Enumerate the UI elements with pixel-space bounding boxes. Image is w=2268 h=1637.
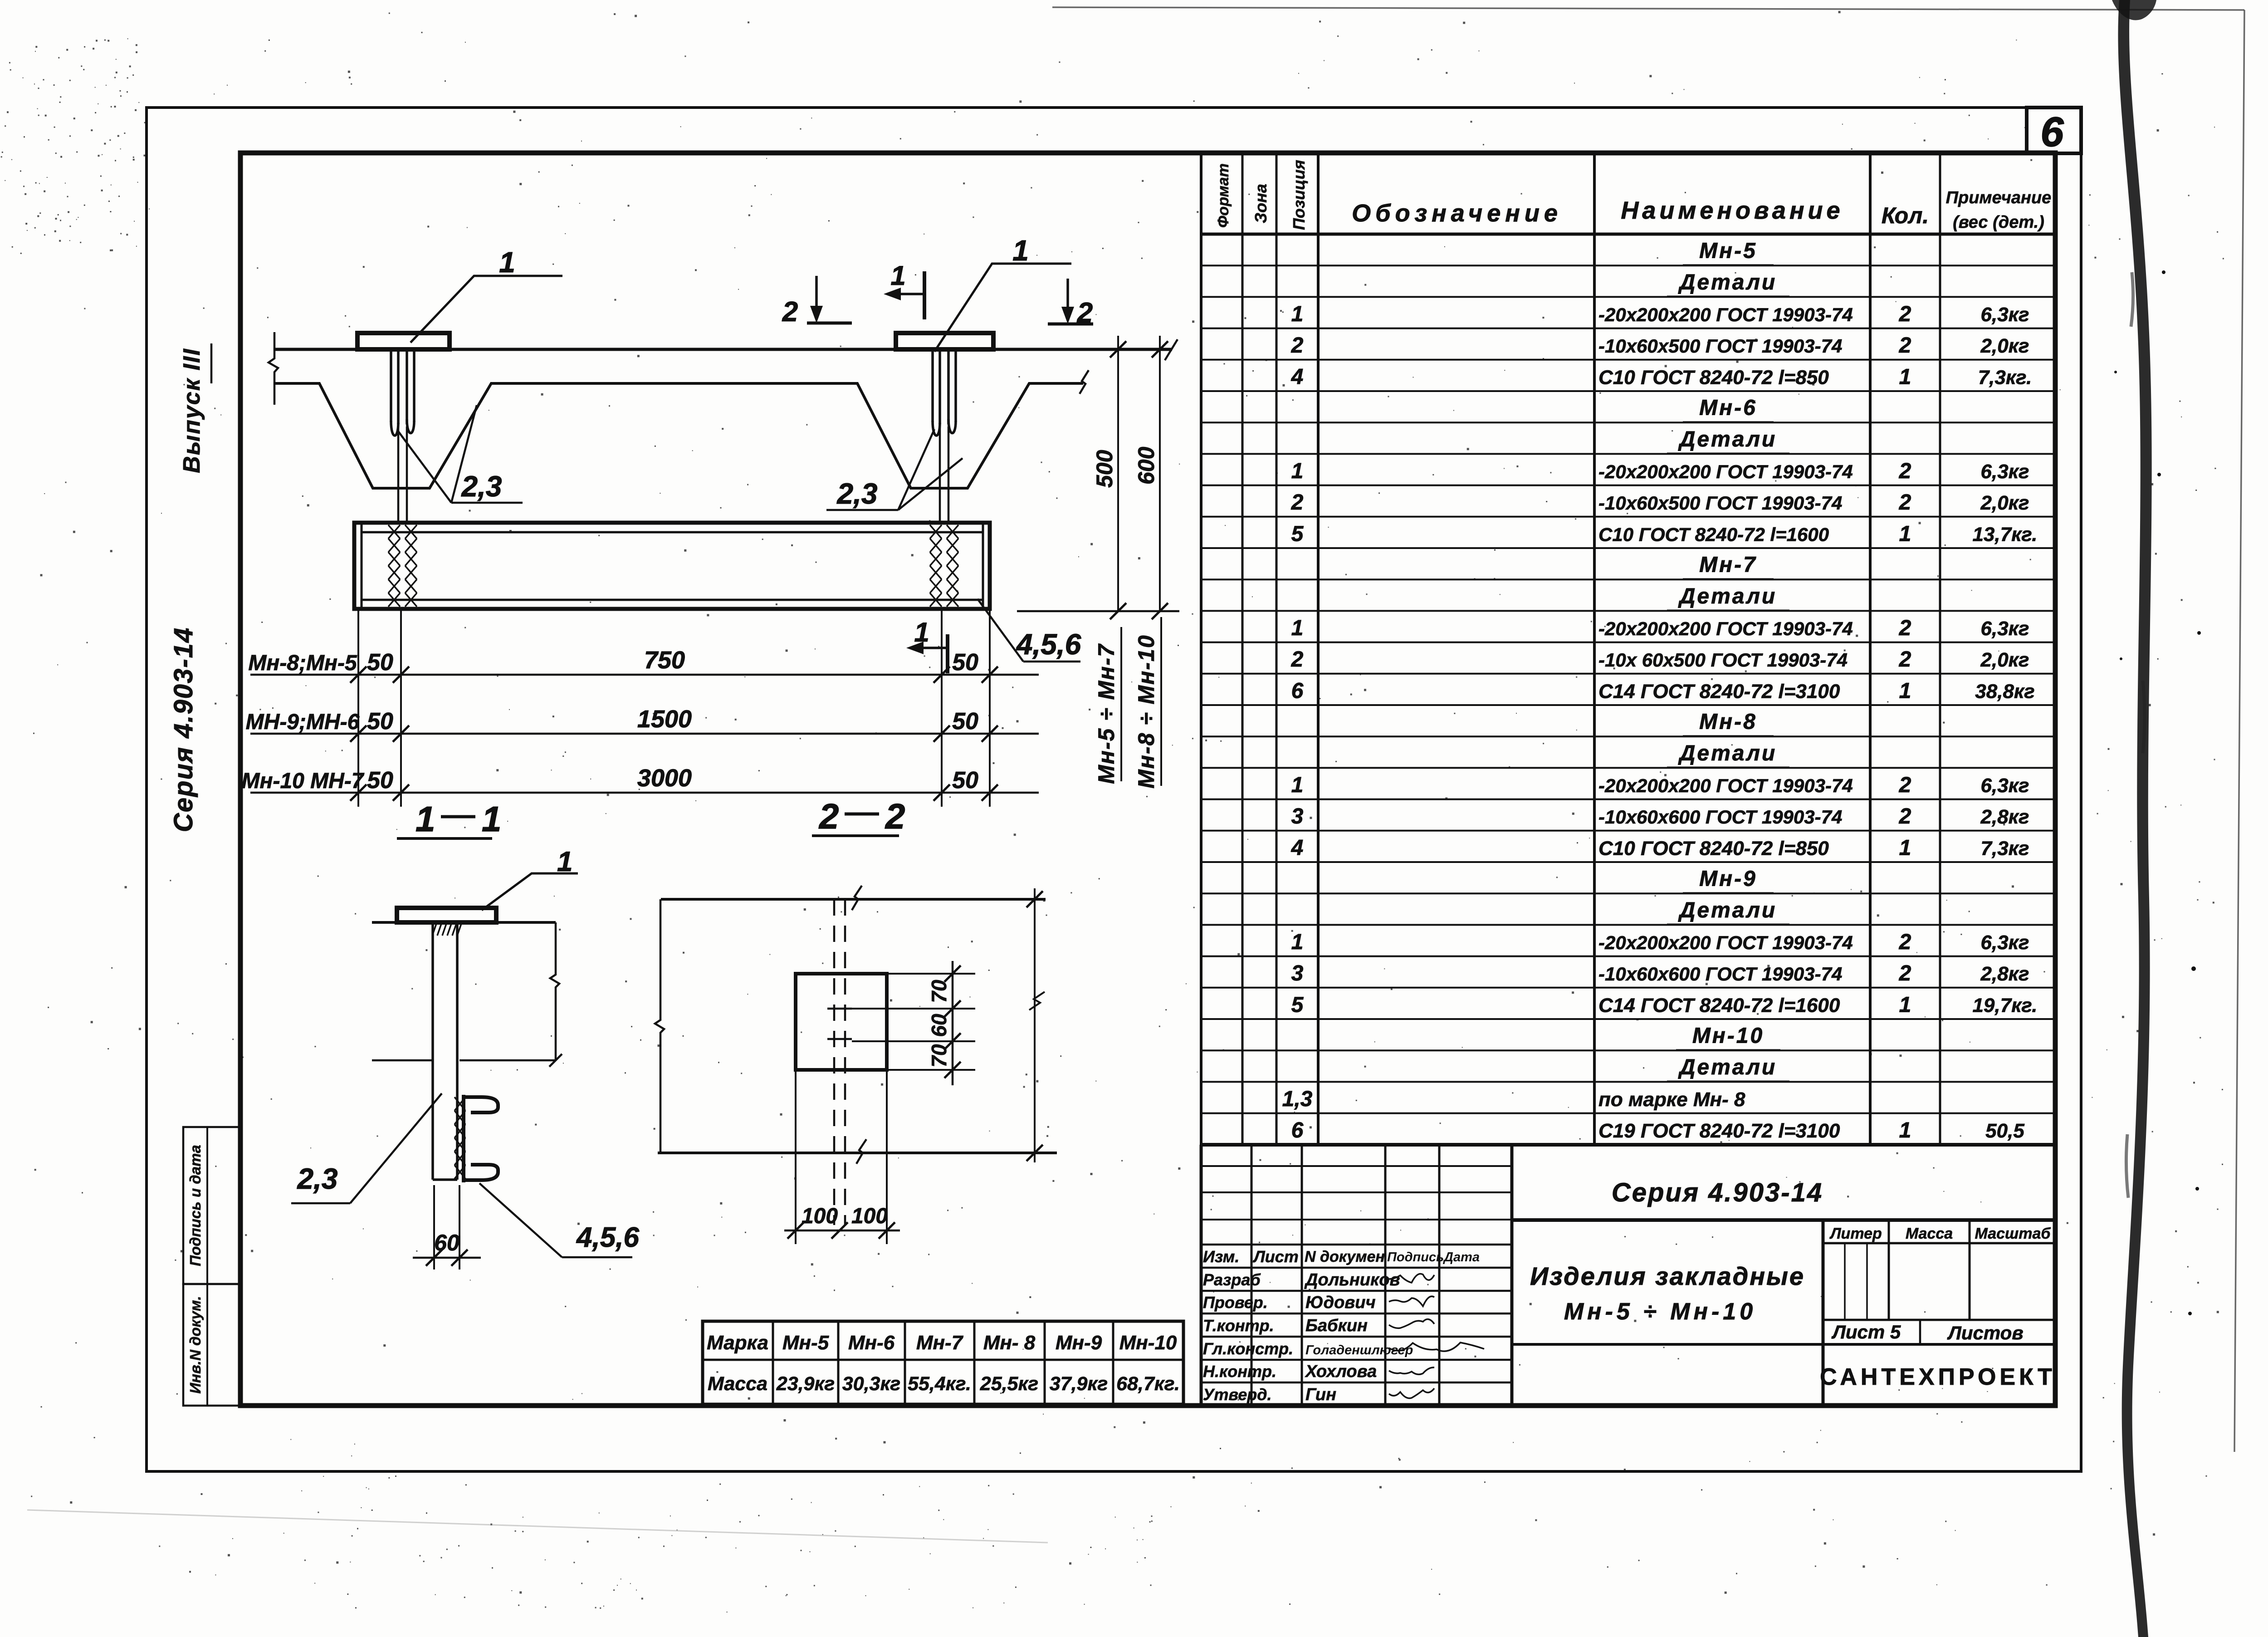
svg-text:2,0кг: 2,0кг: [1980, 492, 2029, 514]
svg-text:2: 2: [1899, 333, 1911, 358]
svg-text:1: 1: [415, 799, 435, 839]
svg-text:Мн-5: Мн-5: [782, 1332, 829, 1354]
plate detail 1 (left): [357, 333, 450, 349]
svg-text:2: 2: [1899, 930, 1911, 954]
лист divider: [1919, 1320, 1921, 1344]
svg-text:2: 2: [782, 296, 798, 328]
section mark 1 (lower) arrow: [916, 647, 948, 649]
dim ticks row A: [350, 667, 367, 683]
svg-text:САНТЕХПРОЕКТ: САНТЕХПРОЕКТ: [1820, 1364, 2056, 1390]
ЛМС header bottom: [1823, 1242, 2055, 1245]
svg-text:600: 600: [1134, 446, 1159, 485]
svg-text:Дата: Дата: [1442, 1250, 1480, 1265]
overall dim line (2-2): [1034, 888, 1036, 1162]
view title 2-2 underline: [812, 834, 899, 837]
anchor rod (view 1-1): [433, 922, 457, 1180]
ЛМС verticals: [1888, 1220, 1890, 1320]
paper bottom edge faint line: [27, 1510, 1048, 1543]
svg-text:100: 100: [851, 1204, 888, 1228]
svg-text:Гин: Гин: [1305, 1385, 1336, 1404]
svg-text:2: 2: [885, 796, 905, 836]
parts table column lines: [1200, 153, 1202, 1145]
svg-text:Литер: Литер: [1829, 1225, 1882, 1242]
svg-text:19,7кг.: 19,7кг.: [1972, 994, 2037, 1016]
svg-text:23,9кг: 23,9кг: [776, 1373, 835, 1395]
svg-text:2: 2: [1899, 459, 1911, 483]
channel bottom flange: [464, 1165, 498, 1180]
marka table column lines: [772, 1321, 774, 1404]
svg-text:1: 1: [1291, 773, 1304, 797]
dim 100 line: [784, 1230, 900, 1232]
break mark top (2-2): [852, 886, 862, 910]
svg-text:Изделия закладные: Изделия закладные: [1530, 1262, 1805, 1290]
dim line row C: [250, 792, 1039, 794]
signature Разраб: [1389, 1274, 1434, 1283]
parts table row lines: [1201, 265, 2055, 266]
revision grid row lines: [1201, 1244, 1512, 1246]
weld xmarks (view 1-1): [455, 1097, 465, 1179]
svg-text:-10х60х500 ГОСТ 19903-74: -10х60х500 ГОСТ 19903-74: [1598, 492, 1842, 514]
svg-text:Кол.: Кол.: [1882, 203, 1929, 228]
slab right edge with break: [550, 922, 559, 1060]
svg-text:2: 2: [1899, 490, 1911, 515]
svg-text:Мн-7: Мн-7: [1699, 553, 1757, 577]
svg-text:750: 750: [644, 647, 685, 674]
revision grid verticals: [1200, 1145, 1203, 1406]
svg-text:2: 2: [818, 796, 839, 836]
torn streak top blob: [2112, 0, 2156, 20]
svg-text:Инв.N докум.: Инв.N докум.: [187, 1296, 204, 1393]
svg-text:Хохлова: Хохлова: [1305, 1362, 1377, 1381]
svg-text:3: 3: [1291, 961, 1304, 985]
section mark 2 (right) arrow: [1066, 279, 1069, 315]
svg-text:2: 2: [1899, 302, 1911, 326]
vertical dim line 600: [1159, 336, 1161, 611]
svg-text:7,3кг.: 7,3кг.: [1978, 366, 2032, 388]
dim extension lines: [358, 610, 990, 807]
svg-text:1,3: 1,3: [1282, 1087, 1313, 1111]
svg-text:Мн- 8: Мн- 8: [983, 1332, 1036, 1354]
svg-text:Зона: Зона: [1251, 184, 1270, 223]
svg-text:1: 1: [499, 246, 515, 279]
svg-text:4: 4: [1291, 365, 1304, 389]
leader 2,3 (view 1-1): [350, 1093, 442, 1203]
margin box divider: [206, 1127, 208, 1284]
svg-text:70: 70: [927, 980, 951, 1003]
ink blobs right margin: [2162, 270, 2165, 274]
signature Т.контр.: [1389, 1319, 1434, 1328]
svg-text:-10х60х500 ГОСТ 19903-74: -10х60х500 ГОСТ 19903-74: [1598, 335, 1842, 357]
outer sheet border: [147, 108, 2081, 1471]
svg-text:Детали: Детали: [1678, 270, 1777, 294]
svg-text:2: 2: [1899, 616, 1911, 640]
slab top line: [274, 348, 1172, 351]
svg-text:Серия 4.903-14: Серия 4.903-14: [169, 627, 198, 832]
svg-text:Мн-9: Мн-9: [1699, 867, 1757, 891]
svg-text:-20х200х200 ГОСТ 19903-74: -20х200х200 ГОСТ 19903-74: [1598, 932, 1853, 953]
left anchor leg inner lines: [398, 349, 407, 424]
underline mark range 2: [1160, 617, 1162, 786]
svg-text:Мн-10: Мн-10: [1119, 1332, 1177, 1354]
svg-text:Детали: Детали: [1678, 741, 1777, 765]
svg-text:2: 2: [1899, 647, 1911, 671]
dim line row A: [250, 674, 1039, 676]
section mark 2 (left) bar: [807, 322, 852, 325]
svg-text:N докумен: N докумен: [1305, 1248, 1385, 1265]
svg-text:Наименование: Наименование: [1621, 197, 1843, 224]
svg-text:Гл.констр.: Гл.констр.: [1203, 1339, 1293, 1358]
signature Утверд.: [1389, 1388, 1434, 1398]
title block top line: [1512, 1218, 2055, 1222]
svg-text:1: 1: [1291, 302, 1304, 326]
svg-text:Марка: Марка: [707, 1332, 768, 1354]
weld tick marks on axis: [827, 1009, 852, 1039]
weld hatch left pair: [388, 525, 400, 607]
leader 4,5,6 (view 1-1): [479, 1183, 562, 1257]
leader to plate (view 1-1): [482, 873, 578, 910]
svg-text:-20х200х200 ГОСТ 19903-74: -20х200х200 ГОСТ 19903-74: [1598, 618, 1853, 639]
svg-text:1: 1: [1012, 234, 1029, 267]
svg-text:Примечание: Примечание: [1946, 188, 2052, 207]
svg-text:-20х200х200 ГОСТ 19903-74: -20х200х200 ГОСТ 19903-74: [1598, 775, 1853, 796]
plate detail 1 (right): [896, 333, 993, 349]
svg-text:Лист 5: Лист 5: [1831, 1321, 1901, 1343]
title block mid line: [1512, 1343, 2055, 1346]
right anchor rod extension to beam: [940, 426, 948, 523]
dim ticks row B: [350, 725, 367, 742]
underline 2,3 left: [451, 502, 523, 504]
svg-text:6,3кг: 6,3кг: [1981, 774, 2029, 797]
underline mark range 1: [1120, 627, 1122, 781]
overall dim break: [1029, 992, 1045, 1010]
slab bottom end tick: [549, 1054, 562, 1067]
svg-text:Мн-5 ÷ Мн-10: Мн-5 ÷ Мн-10: [1564, 1299, 1756, 1325]
dim 60 line: [413, 1257, 481, 1259]
ЛМС row bottom: [1823, 1319, 2055, 1321]
signature Провер.: [1389, 1296, 1434, 1306]
svg-text:С10 ГОСТ 8240-72 l=850: С10 ГОСТ 8240-72 l=850: [1598, 837, 1829, 859]
underline 4,5,6 (view 1-1): [562, 1256, 632, 1259]
svg-text:-20х200х200 ГОСТ 19903-74: -20х200х200 ГОСТ 19903-74: [1598, 304, 1853, 325]
weld hatch right pair: [930, 525, 942, 607]
right anchor leg outer lines: [933, 349, 956, 422]
svg-text:1: 1: [1291, 459, 1304, 483]
parts table header bottom: [1201, 233, 2055, 236]
marka table outline: [703, 1321, 1183, 1404]
svg-text:Мн-9: Мн-9: [1056, 1332, 1102, 1354]
svg-text:2,0кг: 2,0кг: [1980, 335, 2029, 357]
svg-text:55,4кг.: 55,4кг.: [908, 1373, 971, 1395]
svg-text:2: 2: [1077, 297, 1093, 328]
slab top line (2-2): [661, 898, 1046, 901]
svg-text:Серия 4.903-14: Серия 4.903-14: [1612, 1178, 1823, 1207]
overall dim ticks: [1026, 891, 1043, 907]
section mark 2 (right) bar: [1048, 323, 1093, 326]
svg-text:6: 6: [1291, 1118, 1304, 1142]
svg-text:50: 50: [367, 767, 393, 794]
section mark 1 (top) arrow: [894, 293, 924, 295]
svg-text:Подпись: Подпись: [1387, 1250, 1444, 1265]
svg-text:6,3кг: 6,3кг: [1981, 931, 2029, 954]
channel beam outline: [354, 523, 990, 609]
ЛМС sub verticals: [1844, 1243, 1846, 1320]
rod axis dashed line a: [833, 899, 836, 1225]
channel beam inner bottom line: [362, 599, 983, 601]
signature Гл.констр.: [1389, 1343, 1484, 1351]
slab bottom end break: [1080, 370, 1089, 394]
svg-text:60: 60: [927, 1014, 951, 1037]
svg-text:50: 50: [367, 708, 393, 735]
signature Н.контр.: [1389, 1367, 1434, 1374]
slab left edge (2-2): [655, 899, 664, 1153]
svg-text:6,3кг: 6,3кг: [1981, 304, 2029, 326]
svg-text:1: 1: [890, 260, 905, 291]
sheet number box (top right): [2027, 108, 2081, 153]
svg-text:Изм.: Изм.: [1203, 1247, 1239, 1266]
svg-text:1: 1: [1899, 522, 1911, 546]
svg-text:5: 5: [1291, 522, 1304, 546]
svg-text:2: 2: [1899, 804, 1911, 828]
revision grid blank rows: [1201, 1165, 1512, 1167]
svg-text:Мн-10: Мн-10: [1692, 1024, 1764, 1048]
svg-text:50,5: 50,5: [1985, 1120, 2024, 1142]
svg-text:Листов: Листов: [1947, 1322, 2024, 1343]
svg-text:1: 1: [482, 799, 501, 839]
svg-text:70: 70: [927, 1044, 951, 1068]
svg-text:Мн-6: Мн-6: [1699, 396, 1757, 420]
svg-text:Разраб: Разраб: [1203, 1270, 1261, 1289]
slab bottom line (view 1-1): [372, 1059, 556, 1062]
dim 100 extensions: [796, 1072, 887, 1244]
svg-text:С10 ГОСТ 8240-72 l=850: С10 ГОСТ 8240-72 l=850: [1598, 366, 1829, 388]
channel beam inner end lines: [362, 523, 983, 609]
channel web (view 1-1): [462, 1095, 465, 1182]
svg-text:-10х60х600 ГОСТ 19903-74: -10х60х600 ГОСТ 19903-74: [1598, 963, 1842, 985]
svg-text:Обозначение: Обозначение: [1352, 200, 1562, 227]
leader to plate 1 (left): [411, 276, 562, 343]
underline 2,3 (view 1-1): [291, 1202, 350, 1205]
svg-text:Детали: Детали: [1678, 584, 1777, 608]
svg-text:Детали: Детали: [1678, 898, 1777, 922]
dim 70-60-70 extensions: [852, 974, 975, 1070]
svg-text:1: 1: [557, 846, 572, 877]
torn streak fringes: [2126, 272, 2145, 1198]
dim line row B: [250, 733, 1039, 735]
parts table bottom line: [1201, 1143, 2055, 1147]
svg-text:С14 ГОСТ 8240-72 l=1600: С14 ГОСТ 8240-72 l=1600: [1598, 994, 1840, 1016]
marka table row divider: [703, 1359, 1183, 1361]
svg-text:2,8кг: 2,8кг: [1980, 963, 2029, 985]
svg-text:Лист: Лист: [1252, 1247, 1299, 1266]
margin box divider 2: [206, 1284, 208, 1406]
margin box "Инв. N докум.": [183, 1284, 240, 1406]
vertical dim line 500: [1117, 336, 1119, 611]
vertical dim base line: [1017, 610, 1179, 613]
svg-text:Мн-6: Мн-6: [848, 1332, 895, 1354]
svg-text:(вес (дет.): (вес (дет.): [1953, 213, 2044, 232]
svg-text:Мн-7: Мн-7: [916, 1332, 964, 1354]
channel top flange: [464, 1097, 498, 1113]
svg-text:2: 2: [1291, 490, 1304, 515]
slab top line (view 1-1): [372, 921, 556, 924]
svg-text:по марке Мн- 8: по марке Мн- 8: [1598, 1088, 1745, 1111]
svg-text:С14 ГОСТ 8240-72 l=3100: С14 ГОСТ 8240-72 l=3100: [1598, 680, 1840, 702]
svg-text:Детали: Детали: [1678, 1055, 1777, 1079]
svg-text:500: 500: [1092, 450, 1117, 488]
svg-text:30,3кг: 30,3кг: [842, 1373, 900, 1395]
svg-text:1: 1: [1899, 365, 1911, 389]
svg-text:4,5,6: 4,5,6: [1016, 628, 1081, 661]
svg-text:6,3кг: 6,3кг: [1981, 461, 2029, 483]
svg-text:2: 2: [1899, 773, 1911, 797]
svg-text:1500: 1500: [637, 706, 692, 733]
paper right edge line: [2234, 10, 2244, 1452]
svg-text:С19 ГОСТ 8240-72 l=3100: С19 ГОСТ 8240-72 l=3100: [1598, 1120, 1840, 1142]
svg-text:50: 50: [952, 708, 978, 735]
svg-text:МН-9;МН-6: МН-9;МН-6: [246, 710, 360, 734]
svg-text:4: 4: [1291, 836, 1304, 860]
channel beam inner top line: [362, 531, 983, 534]
svg-text:Мн-8;Мн-5: Мн-8;Мн-5: [248, 651, 357, 675]
svg-text:Формат: Формат: [1215, 163, 1232, 228]
svg-text:Бабкин: Бабкин: [1305, 1316, 1368, 1335]
right anchor U-bends: [933, 419, 956, 436]
svg-text:1: 1: [1291, 616, 1304, 640]
svg-text:Позиция: Позиция: [1290, 160, 1308, 230]
svg-text:1: 1: [1899, 836, 1911, 860]
svg-text:50: 50: [952, 649, 978, 676]
section mark 1 (lower) bar: [946, 634, 949, 673]
svg-text:Юдович: Юдович: [1305, 1293, 1376, 1312]
svg-text:Подпись и дата: Подпись и дата: [187, 1145, 204, 1266]
svg-text:Утверд.: Утверд.: [1203, 1385, 1272, 1404]
svg-text:50: 50: [952, 767, 978, 794]
parts table top line: [1201, 151, 2055, 155]
svg-text:4,5,6: 4,5,6: [576, 1222, 639, 1253]
dim 70-60-70 line: [952, 961, 954, 1085]
svg-text:Дольников: Дольников: [1304, 1270, 1400, 1289]
svg-text:2,3: 2,3: [837, 477, 878, 510]
svg-text:1: 1: [914, 617, 929, 647]
underline 4,5,6: [1023, 661, 1080, 663]
svg-text:3: 3: [1291, 804, 1304, 828]
paper top edge line: [1052, 7, 2244, 10]
svg-text:2: 2: [1291, 647, 1304, 671]
svg-text:Мн-10 МН-7: Мн-10 МН-7: [241, 769, 364, 793]
weld hatch under plate: [432, 924, 461, 936]
svg-text:Масштаб: Масштаб: [1975, 1225, 2051, 1242]
svg-text:Масса: Масса: [708, 1373, 767, 1395]
left anchor rod extension to beam: [398, 426, 407, 523]
svg-text:100: 100: [802, 1204, 838, 1228]
svg-text:1: 1: [1899, 1118, 1911, 1142]
view title underline: [397, 837, 492, 840]
svg-text:Мн-5: Мн-5: [1699, 239, 1757, 263]
svg-text:Мн-8 ÷ Мн-10: Мн-8 ÷ Мн-10: [1134, 634, 1159, 789]
dim ticks row C: [350, 784, 367, 801]
dim 70-60-70 ticks: [944, 966, 961, 982]
slab bottom with rib voids: [274, 383, 1083, 488]
svg-text:Н.контр.: Н.контр.: [1203, 1362, 1276, 1381]
underline 2,3 right: [826, 509, 898, 511]
dim 100 ticks: [787, 1222, 804, 1239]
right anchor leg inner lines: [940, 349, 948, 424]
svg-text:Мн-8: Мн-8: [1699, 710, 1757, 734]
svg-text:1: 1: [1899, 679, 1911, 703]
svg-text:1: 1: [1291, 930, 1304, 954]
section mark 2 (left) arrow: [815, 276, 818, 314]
svg-text:2: 2: [1899, 961, 1911, 985]
svg-text:3000: 3000: [637, 765, 692, 792]
svg-text:Детали: Детали: [1678, 427, 1777, 451]
svg-text:С10 ГОСТ 8240-72 l=1600: С10 ГОСТ 8240-72 l=1600: [1598, 524, 1829, 545]
plate in plan (2-2): [796, 974, 887, 1070]
dim 60 extensions: [434, 1185, 459, 1269]
svg-text:2,8кг: 2,8кг: [1980, 806, 2029, 828]
left anchor U-bends: [391, 419, 414, 436]
svg-text:37,9кг: 37,9кг: [1050, 1373, 1108, 1395]
dark torn streak (right): [2118, 0, 2151, 1637]
svg-text:Провер.: Провер.: [1203, 1293, 1268, 1312]
margin box "Подпись и дата": [183, 1127, 240, 1284]
svg-text:25,5кг: 25,5кг: [980, 1373, 1038, 1395]
leader 4,5,6: [978, 599, 1023, 662]
svg-text:-10х60х600 ГОСТ 19903-74: -10х60х600 ГОСТ 19903-74: [1598, 806, 1842, 828]
slab bottom line (2-2): [658, 1152, 1057, 1154]
title block vertical divider: [1822, 1220, 1825, 1406]
break mark bottom (2-2): [856, 1139, 866, 1164]
leader 2,3 right: [898, 429, 963, 510]
svg-text:1: 1: [1899, 993, 1911, 1017]
svg-text:13,7кг.: 13,7кг.: [1972, 523, 2037, 545]
leader 2,3 left: [397, 405, 477, 503]
slab top end tick: [1165, 339, 1178, 360]
svg-text:2,3: 2,3: [297, 1162, 338, 1195]
svg-text:60: 60: [434, 1230, 459, 1255]
svg-text:Мн-5 ÷ Мн-7: Мн-5 ÷ Мн-7: [1094, 643, 1119, 784]
svg-text:6: 6: [1291, 679, 1304, 703]
svg-text:Масса: Масса: [1906, 1225, 1953, 1242]
section mark 1 (top) bar: [923, 271, 926, 319]
svg-text:7,3кг: 7,3кг: [1981, 837, 2029, 859]
svg-text:2,3: 2,3: [461, 470, 502, 503]
svg-text:-20х200х200 ГОСТ 19903-74: -20х200х200 ГОСТ 19903-74: [1598, 461, 1853, 482]
plate section (view 1-1): [397, 908, 496, 922]
svg-text:6,3кг: 6,3кг: [1981, 618, 2029, 640]
vertical dim ticks: [1110, 341, 1126, 358]
rod axis dashed line b: [844, 899, 846, 1225]
svg-text:2,0кг: 2,0кг: [1980, 649, 2029, 671]
dim 60 ticks: [426, 1250, 442, 1266]
left break mark: [269, 332, 278, 405]
svg-text:6: 6: [2040, 109, 2064, 155]
svg-text:38,8кг: 38,8кг: [1975, 680, 2034, 702]
svg-text:-10х 60х500 ГОСТ 19903-74: -10х 60х500 ГОСТ 19903-74: [1598, 649, 1848, 671]
svg-text:Выпуск III: Выпуск III: [179, 348, 205, 473]
svg-text:5: 5: [1291, 993, 1304, 1017]
svg-text:Т.контр.: Т.контр.: [1203, 1316, 1274, 1335]
svg-text:50: 50: [367, 649, 393, 676]
inner drawing frame: [240, 153, 2055, 1406]
svg-text:68,7кг.: 68,7кг.: [1116, 1373, 1180, 1395]
left anchor leg outer lines: [391, 349, 414, 422]
underline of III: [210, 343, 213, 383]
svg-text:2: 2: [1291, 333, 1304, 358]
leader to plate 1 (right): [934, 264, 1071, 352]
